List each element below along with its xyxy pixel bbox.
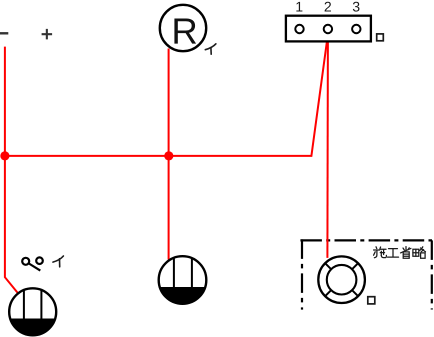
label イ (for switch) bbox=[53, 256, 64, 267]
pin number 3 bbox=[353, 2, 360, 12]
junction node B (middle bus junction) bbox=[164, 151, 173, 160]
pin 3 bbox=[352, 25, 360, 33]
ceiling light fixture (bottom left) bbox=[9, 288, 56, 336]
construction-omitted boundary left edge bbox=[301, 239, 303, 309]
minus terminal label bbox=[0, 32, 8, 34]
construction-omitted boundary (dash-dot box) top edge bbox=[300, 239, 432, 241]
wire: middle vertical from lamp R down to ceiling light bbox=[168, 49, 170, 260]
switch イ contacts bbox=[22, 257, 43, 264]
施 bbox=[375, 247, 378, 249]
ceiling light fixture (bottom middle) bbox=[159, 256, 207, 304]
plus terminal label bbox=[42, 29, 53, 40]
switch blade bbox=[29, 264, 40, 271]
pin number 1 bbox=[296, 2, 302, 12]
small square marker beside outlet bbox=[368, 297, 375, 304]
terminal block TB1 bbox=[286, 16, 371, 42]
pin 1 bbox=[295, 25, 303, 33]
lamp receptacle R bbox=[160, 5, 206, 51]
small square marker beside terminal block bbox=[377, 34, 384, 41]
construction-omitted boundary right edge bbox=[431, 240, 433, 309]
wire: vertical from terminal block pin 2 down to outlet in omitted box bbox=[326, 35, 329, 258]
wire: left vertical from minus terminal down to ceiling light bbox=[5, 47, 18, 293]
工 bbox=[389, 248, 398, 250]
outlet (in omitted box) bbox=[318, 256, 365, 303]
label イ (for lamp R) bbox=[205, 44, 216, 54]
wire: horizontal bus with bend up to terminal block pin 2 bbox=[5, 35, 328, 156]
junction node A (left bus junction) bbox=[0, 151, 9, 160]
spokes bbox=[325, 263, 358, 296]
pin 2 bbox=[324, 25, 332, 33]
pin number 2 bbox=[325, 2, 331, 12]
省 bbox=[405, 247, 407, 251]
略 bbox=[413, 249, 419, 256]
label 施工省略 (hand-drawn glyphs) bbox=[374, 247, 426, 259]
